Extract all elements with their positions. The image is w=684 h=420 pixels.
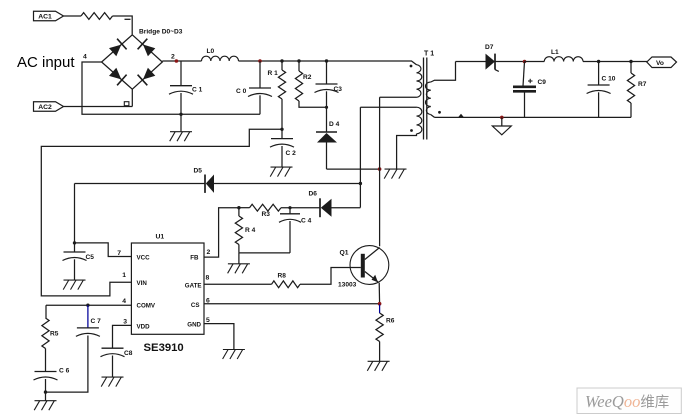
- capacitor C9 (polarized): [513, 62, 536, 118]
- capacitor C8: [101, 348, 125, 377]
- label R5: [50, 331, 59, 338]
- label C6: [59, 368, 70, 375]
- svg-text:CS: CS: [191, 302, 200, 309]
- label D4: [329, 121, 340, 128]
- svg-text:C 0: C 0: [236, 88, 247, 95]
- capacitor C6: [34, 372, 58, 401]
- svg-text:5: 5: [206, 317, 210, 324]
- svg-text:8: 8: [206, 275, 210, 282]
- bridge diode D1 (top-right): [138, 39, 156, 57]
- port AC2: [34, 102, 64, 112]
- wire CS pin6 to emitter node: [204, 303, 380, 305]
- svg-text:R2: R2: [303, 74, 312, 81]
- label D6: [309, 191, 318, 198]
- svg-text:13003: 13003: [338, 282, 357, 289]
- label Q1: [340, 250, 349, 257]
- pin number 5: [206, 317, 210, 324]
- label C8: [124, 350, 133, 357]
- capacitor C1: [169, 61, 193, 131]
- svg-text:R8: R8: [278, 273, 287, 280]
- wire R8 to Q1 base: [300, 268, 361, 285]
- svg-text:AC input: AC input: [17, 54, 75, 71]
- ground under C5: [63, 280, 85, 290]
- svg-text:2: 2: [171, 54, 175, 61]
- wire D5 to VCC/C5: [74, 184, 76, 243]
- svg-text:AC1: AC1: [38, 14, 52, 21]
- ground under C2: [270, 167, 292, 177]
- ground aux winding: [384, 169, 406, 179]
- capacitor C10: [587, 62, 611, 118]
- capacitor C2: [270, 139, 294, 167]
- junction C6/C7: [44, 390, 47, 393]
- bridge diode D3 (bottom-right): [138, 68, 156, 86]
- junction L0/C0 (red): [258, 59, 262, 63]
- pin text VIN: [137, 280, 148, 287]
- svg-text:SE3910: SE3910: [144, 342, 184, 354]
- bridge diode D0 (top-left): [109, 39, 127, 57]
- svg-text:R 1: R 1: [268, 70, 279, 77]
- pin number 1: [122, 272, 126, 279]
- junction C1/rail: [179, 113, 182, 116]
- capacitor C5: [63, 243, 87, 280]
- junction D4/collector (red): [378, 167, 382, 171]
- svg-text:C9: C9: [538, 79, 547, 86]
- inductor L0: [202, 48, 239, 61]
- svg-text:VCC: VCC: [137, 254, 151, 261]
- resistor R4: [235, 208, 242, 253]
- pin number 6: [206, 298, 210, 305]
- wire D7 node to L1: [525, 61, 545, 63]
- wire GATE to R8: [204, 283, 272, 285]
- svg-text:C3: C3: [334, 86, 343, 93]
- svg-text:C 4: C 4: [301, 218, 312, 225]
- label T1: [424, 51, 434, 58]
- wire node2 to L0: [162, 60, 201, 62]
- pin text COMV: [137, 303, 156, 310]
- svg-text:4: 4: [83, 54, 87, 61]
- svg-text:T 1: T 1: [424, 51, 434, 58]
- label C0: [236, 88, 247, 95]
- junction R7: [629, 60, 632, 63]
- pin text VDD: [137, 324, 151, 331]
- svg-text:Q1: Q1: [340, 250, 349, 257]
- resistor R3: [239, 204, 320, 211]
- pin number 8: [206, 275, 210, 282]
- port AC1: [34, 11, 64, 21]
- label C1: [192, 87, 203, 94]
- label R7: [638, 81, 647, 88]
- node 2 junction (red): [175, 59, 179, 63]
- capacitor C0: [248, 61, 272, 114]
- wire D4 to collector line: [327, 168, 380, 170]
- resistor R2: [295, 61, 326, 107]
- pin text CS: [191, 302, 200, 309]
- wire GND pin5: [204, 324, 234, 350]
- svg-text:C 2: C 2: [286, 150, 297, 157]
- T1 core: [424, 58, 427, 140]
- label D7: [485, 44, 494, 51]
- svg-text:Vo: Vo: [656, 60, 664, 67]
- svg-text:D6: D6: [309, 191, 318, 198]
- svg-text:U1: U1: [156, 234, 165, 241]
- svg-text:R7: R7: [638, 81, 647, 88]
- ground under pin5: [223, 350, 245, 360]
- label R6: [386, 318, 395, 325]
- junction C7: [86, 304, 89, 307]
- text AC input: [17, 54, 75, 71]
- diode D7: [486, 54, 525, 72]
- wire secondary top to D7: [456, 61, 486, 63]
- wire AC2 to bridge bottom: [64, 106, 133, 108]
- node 2 label: [171, 54, 175, 61]
- label SE3910: [144, 342, 184, 354]
- svg-text:FB: FB: [190, 254, 199, 261]
- svg-text:VDD: VDD: [137, 324, 151, 331]
- op-amp controller U1 box: [131, 243, 204, 334]
- pin number 2: [207, 249, 211, 256]
- wire L0 to transformer: [239, 60, 405, 62]
- ground under C8: [101, 377, 123, 387]
- svg-text:1: 1: [122, 272, 126, 279]
- svg-text:COMV: COMV: [137, 303, 156, 310]
- pin number 4: [122, 298, 126, 305]
- ground output (earth): [492, 117, 511, 134]
- pin text GATE: [185, 282, 202, 289]
- junction C5: [73, 241, 76, 244]
- ground under R6: [367, 361, 389, 371]
- junction R4: [237, 206, 240, 209]
- capacitor C7: [76, 305, 100, 336]
- junction output ground (red): [500, 116, 504, 120]
- wire C4 bottom to R4 bottom: [239, 252, 290, 254]
- svg-text:L0: L0: [207, 48, 215, 55]
- wire AC1 to fuse resistor: [64, 15, 82, 17]
- svg-text:R6: R6: [386, 318, 395, 325]
- svg-text:C8: C8: [124, 350, 133, 357]
- transistor Q1: [350, 246, 389, 304]
- junction R1/C2/loop: [280, 128, 283, 131]
- svg-text:L1: L1: [551, 49, 559, 56]
- wire bridge bottom stem, node 3: [124, 89, 132, 106]
- wire COMV pin4 line: [46, 304, 131, 306]
- bridge outline D0-D3: [102, 35, 163, 89]
- wire FB pin to R3 node: [204, 208, 239, 257]
- resistor R1: [278, 61, 285, 139]
- label R4: [245, 227, 256, 234]
- wire collector line: [379, 97, 381, 246]
- junction D5/aux: [359, 182, 362, 185]
- label R2: [303, 74, 312, 81]
- inductor L1: [544, 49, 583, 62]
- label R3: [262, 211, 271, 218]
- junction C4: [288, 206, 291, 209]
- label D5: [194, 168, 203, 175]
- T1 secondary winding: [425, 62, 455, 118]
- svg-text:7: 7: [117, 250, 121, 257]
- svg-text:D5: D5: [194, 168, 203, 175]
- label C9: [538, 79, 547, 86]
- wire node4 to negative rail: [82, 62, 260, 114]
- fuse resistor: [81, 13, 113, 20]
- port Vo: [647, 57, 677, 68]
- wire C7 bottom: [46, 336, 88, 393]
- svg-text:C 6: C 6: [59, 368, 70, 375]
- svg-text:WeeQoo维库: WeeQoo维库: [585, 392, 669, 411]
- junction emitter/CS (red): [378, 302, 382, 306]
- junction R2: [297, 59, 300, 62]
- svg-text:R5: R5: [50, 331, 59, 338]
- wire secondary bottom bus: [435, 114, 632, 118]
- svg-text:C 1: C 1: [192, 87, 203, 94]
- resistor R8: [272, 281, 301, 288]
- capacitor C3: [315, 61, 339, 132]
- wire VDD pin3 to C8: [113, 325, 132, 348]
- pin text FB: [190, 254, 199, 261]
- node 4 label: [83, 54, 87, 61]
- wire L1 to output: [583, 61, 647, 63]
- label C3: [334, 86, 343, 93]
- label Bridge D0~D3: [139, 29, 183, 36]
- svg-text:D7: D7: [485, 44, 494, 51]
- svg-text:VIN: VIN: [137, 280, 148, 287]
- diode D5: [205, 175, 360, 193]
- svg-text:D 4: D 4: [329, 121, 340, 128]
- watermark WeeQoo box: [577, 388, 681, 414]
- label R8: [278, 273, 287, 280]
- label C10: [602, 76, 616, 83]
- ground under C1: [170, 132, 192, 142]
- svg-text:R3: R3: [262, 211, 271, 218]
- capacitor C4: [279, 208, 301, 253]
- svg-text:R 4: R 4: [245, 227, 256, 234]
- resistor R6: [376, 305, 383, 362]
- svg-text:GND: GND: [187, 322, 201, 329]
- svg-text:AC2: AC2: [38, 104, 52, 111]
- pin text GND: [187, 322, 201, 329]
- T1 aux winding: [360, 107, 421, 169]
- wire VCC to pin7: [75, 243, 132, 257]
- svg-text:C 10: C 10: [602, 76, 616, 83]
- svg-text:Bridge D0~D3: Bridge D0~D3: [139, 29, 183, 36]
- T1 primary winding: [380, 61, 422, 97]
- diode D6: [320, 198, 360, 217]
- wire VCC node to D5: [75, 183, 205, 185]
- svg-text:C 7: C 7: [91, 318, 102, 325]
- pin text VCC: [137, 254, 151, 261]
- ground under C6: [34, 401, 56, 411]
- junction R1: [280, 59, 283, 62]
- junction C10: [597, 60, 600, 63]
- label C5: [86, 254, 95, 261]
- diode D4: [316, 132, 337, 169]
- label C4: [301, 218, 312, 225]
- junction R2/C3/D4: [325, 106, 328, 109]
- ground under R4: [228, 253, 250, 273]
- label C7: [91, 318, 102, 325]
- label U1: [156, 234, 165, 241]
- svg-text:C5: C5: [86, 254, 95, 261]
- label R1: [268, 70, 279, 77]
- svg-text:2: 2: [207, 249, 211, 256]
- label C2: [286, 150, 297, 157]
- bridge diode D2 (bottom-left): [109, 68, 127, 86]
- wire aux to D5/D6 node: [359, 107, 361, 207]
- resistor R7: [627, 62, 634, 118]
- label 13003: [338, 282, 357, 289]
- pin number 3: [123, 319, 127, 326]
- wire fuse to bridge top, node 1: [113, 16, 133, 35]
- junction C9 (red): [523, 60, 527, 64]
- svg-text:GATE: GATE: [185, 282, 202, 289]
- svg-text:4: 4: [122, 298, 126, 305]
- pin number 7: [117, 250, 121, 257]
- svg-text:3: 3: [123, 319, 127, 326]
- junction C3: [325, 59, 328, 62]
- wire C2 node to VIN loop: [41, 129, 282, 296]
- resistor R5: [42, 305, 49, 371]
